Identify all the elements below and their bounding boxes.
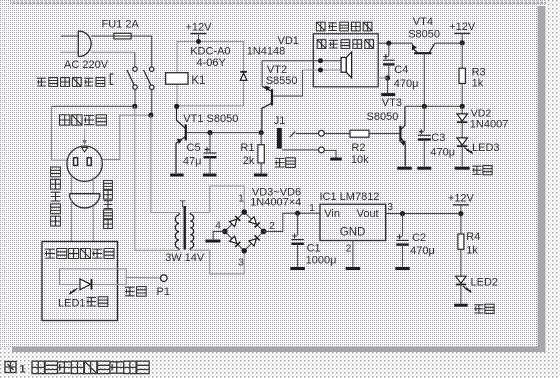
svg-text:1: 1 (20, 364, 26, 376)
label label 绿色 (472, 166, 492, 175)
svg-text:LED2: LED2 (471, 277, 499, 289)
ground VT1 emitter (170, 174, 184, 177)
svg-text:+12V: +12V (448, 192, 475, 204)
svg-text:K1: K1 (191, 75, 205, 87)
svg-text:C2: C2 (412, 232, 426, 244)
power +12V right (449, 21, 476, 43)
wire down to pole1 (134, 52, 136, 67)
svg-text:R2: R2 (351, 142, 365, 154)
wire C3 bottom stem (423, 140, 425, 167)
svg-text:S8050: S8050 (367, 111, 399, 123)
wire node to VD2 (461, 106, 463, 114)
ground J1 (330, 158, 342, 161)
ground LED2 (454, 304, 468, 307)
wire secondary bottom jog (190, 250, 244, 274)
wire bridge 4 to ground (213, 231, 225, 239)
wire C2 to ground (402, 245, 404, 267)
EV charger box (42, 242, 118, 321)
svg-text:C5: C5 (187, 142, 201, 154)
wire plug to charger left (70, 199, 72, 242)
diode VD4 (1-2) (249, 217, 260, 228)
label label 定时插座 (60, 115, 107, 125)
wire R1 top stem (260, 133, 262, 145)
AC plug symbol (78, 31, 91, 57)
svg-text:1k: 1k (466, 245, 478, 257)
wire VT3 collector to node (405, 105, 422, 107)
svg-text:R4: R4 (466, 231, 480, 243)
wire speaker to VT4 emitter (378, 42, 412, 44)
bridge node 3 (241, 248, 247, 254)
wire C3 top stem (423, 106, 425, 131)
svg-text:1N4007: 1N4007 (470, 119, 509, 131)
wire C4 to ground (387, 78, 389, 93)
svg-text:4-06Y: 4-06Y (197, 57, 227, 69)
timer socket symbol (67, 146, 102, 181)
svg-text:IC1 LM7812: IC1 LM7812 (320, 191, 380, 203)
wire secondary top jog (190, 186, 244, 213)
power +12V output (448, 192, 475, 211)
wire mains N down (150, 115, 152, 212)
svg-text:4: 4 (215, 220, 221, 231)
power +12V relay (186, 21, 213, 41)
switch pole1 bottom contact (133, 85, 137, 89)
push-button bracket (110, 74, 113, 84)
wire R2 to VT3 base (369, 133, 399, 135)
wire R4 to LED2 (460, 249, 462, 276)
svg-text:S8050: S8050 (408, 28, 440, 40)
label label 闹钟扬声器 (317, 40, 373, 49)
wire IC GND pin (352, 241, 354, 267)
svg-text:GND: GND (340, 227, 366, 239)
wire socket loop right jog (102, 115, 148, 160)
wire Vout to +12V (386, 213, 458, 215)
wire contact to R2 (324, 133, 350, 135)
node VT4 base / C3 (422, 104, 427, 109)
diode VD3 (4-1) (230, 216, 241, 227)
capacitor C1 (291, 234, 304, 244)
label label LED1 红色 (87, 297, 108, 307)
wire plug to charger right (92, 206, 94, 242)
node +12V VT4 (460, 40, 465, 45)
svg-text:3W 14V: 3W 14V (165, 252, 205, 264)
wire J1 bottom to contact (282, 149, 319, 151)
label label 插头 (125, 287, 146, 297)
svg-text:S8550: S8550 (266, 75, 298, 87)
wire C2 stem (402, 214, 404, 237)
svg-text:VT1 S8050: VT1 S8050 (183, 113, 238, 125)
switch pole1 blade (127, 70, 134, 85)
svg-text:2: 2 (346, 244, 352, 255)
speaker symbol (341, 52, 352, 78)
resistor R2 (350, 130, 369, 137)
wire socket loop top (52, 105, 133, 107)
wire C4 bottom stem (388, 65, 390, 78)
ground bridge (205, 240, 220, 243)
ground C1 (290, 267, 305, 270)
ground LED3 (455, 167, 470, 170)
wire socket loop left (52, 106, 68, 160)
LED LED2 (456, 276, 466, 284)
wire pole1 to node A (134, 89, 136, 104)
switch pole2 blade (144, 70, 151, 85)
wire C5 top stem (209, 133, 211, 153)
fuse FU1 (114, 33, 131, 39)
svg-text:AC 220V: AC 220V (64, 59, 109, 71)
svg-text:1000μ: 1000μ (306, 255, 337, 267)
label label 电动车充电器 (45, 249, 114, 259)
LED2 arrows (463, 286, 471, 292)
transformer T primary (175, 213, 179, 251)
charger internal loop (60, 269, 127, 285)
resistor R3 (459, 68, 465, 83)
svg-text:J1: J1 (274, 115, 286, 127)
capacitor C4 (383, 54, 395, 64)
transformer core (183, 206, 185, 250)
wire C5 bottom stem (209, 157, 211, 173)
svg-text:+12V: +12V (449, 21, 476, 33)
wire socket pin left (70, 176, 72, 194)
resistor R1 (258, 145, 264, 163)
svg-text:Vin: Vin (324, 208, 340, 220)
svg-text:LED1: LED1 (58, 297, 86, 309)
wire VT2 base to speaker (273, 70, 302, 96)
IC1 LM7812 box (320, 204, 386, 240)
wire mains L down (134, 106, 136, 250)
svg-text:C1: C1 (307, 242, 321, 254)
svg-text:3: 3 (387, 202, 393, 213)
wire C4 to speaker box (378, 77, 387, 79)
relay box wiring (177, 42, 244, 106)
svg-text:1k: 1k (472, 77, 484, 89)
node speaker bottom (318, 68, 323, 73)
wire LED2 to ground (460, 285, 462, 304)
wire +12V to R3 (461, 43, 463, 68)
label label 充电器插头 vertical (51, 167, 61, 226)
switch pole1 top contact (133, 67, 137, 71)
resistor R4 (458, 234, 464, 249)
svg-text:2k: 2k (243, 155, 255, 167)
svg-text:10k: 10k (351, 154, 369, 166)
ground VT3 emitter (397, 167, 412, 170)
LED LED3 (457, 138, 467, 146)
capacitor C3 (418, 129, 431, 139)
node C4 top (386, 41, 391, 46)
capacitor C2 (396, 234, 409, 244)
svg-text:1N4148: 1N4148 (247, 45, 286, 57)
svg-text:VT3: VT3 (382, 97, 402, 109)
svg-text:47μ: 47μ (183, 155, 202, 167)
J1 contact bottom (319, 147, 325, 153)
arrow to socket (83, 129, 87, 146)
svg-text:470μ: 470μ (430, 146, 455, 158)
top scan edge (10, 0, 546, 4)
transformer T secondary (190, 213, 193, 251)
wire VT1 base bus (187, 132, 259, 134)
wire VT4 collector to +12V (435, 42, 463, 44)
ground R1 (254, 174, 268, 177)
ground C2 (395, 267, 410, 270)
ground C4 (381, 93, 395, 96)
wire R3 to node (461, 83, 463, 104)
jack J1 (277, 128, 282, 149)
node C1 (295, 211, 300, 216)
diode VD5 (4-3) (230, 236, 241, 247)
svg-text:KDC-A0: KDC-A0 (190, 46, 230, 58)
svg-text:R1: R1 (240, 142, 254, 154)
wire to P1 (126, 276, 160, 279)
label label LED2 红色 (474, 304, 494, 313)
charger plug arc (69, 194, 100, 208)
svg-text:Vout: Vout (357, 208, 379, 220)
wire J1 to ground (324, 150, 336, 157)
ground C3 (417, 167, 431, 170)
node VT1 collector / relay (174, 104, 179, 109)
wire node bus (422, 105, 462, 107)
bridge node 1 (241, 209, 247, 215)
switch pole2 top contact (150, 67, 154, 71)
wire speaker top terminal (262, 60, 341, 62)
label label 插孔 (275, 158, 296, 168)
node C4 bottom (385, 75, 390, 80)
ground C5 (203, 174, 217, 177)
bridge node 4 (222, 229, 228, 235)
LED LED1 (80, 279, 92, 290)
svg-text:LED3: LED3 (472, 142, 500, 154)
wire fuse to switch pole2 (131, 36, 152, 67)
capacitor C5 (204, 147, 217, 157)
node B mains N (148, 113, 153, 118)
label label 电源开关按钮 (37, 78, 105, 87)
node +12V out (458, 211, 463, 216)
svg-text:470μ: 470μ (394, 78, 419, 90)
left scan line (4, 8, 6, 345)
bottom shadow (12, 347, 546, 353)
wire AC plug bottom stub (61, 51, 78, 53)
wire J1 tick to contact (296, 133, 319, 135)
wire socket pin right (92, 177, 94, 194)
wire C4 top stem (388, 43, 390, 56)
node C2 (400, 211, 405, 216)
wire VT2 emitter riser (261, 61, 263, 87)
bridge wiring diamond (225, 212, 264, 251)
figure caption 图1 智能定时插座电路图 (5, 362, 16, 373)
diode VD6 (3-2) (249, 235, 260, 246)
svg-text:FU1 2A: FU1 2A (102, 18, 140, 30)
diode VD1 (240, 72, 247, 81)
svg-text:1: 1 (309, 203, 315, 214)
wire C1 to ground (297, 244, 299, 267)
transistor VT4 (412, 44, 435, 54)
wire C1 stem (297, 213, 299, 235)
node R1 top / VT2 collector (259, 130, 264, 135)
svg-text:C3: C3 (431, 132, 445, 144)
svg-text:470μ: 470μ (410, 245, 435, 257)
wire bridge 2 to Vin (264, 213, 320, 231)
svg-text:P1: P1 (157, 286, 170, 298)
svg-text:1: 1 (238, 194, 244, 205)
relay coil K1 (166, 73, 188, 85)
svg-text:3: 3 (238, 258, 244, 269)
ground IC (346, 267, 361, 270)
alarm clock speaker box (313, 34, 378, 87)
wire to R4 (460, 214, 462, 234)
wire plug to fuse (91, 35, 114, 37)
node speaker top (318, 58, 323, 63)
wire VT4 base down (423, 53, 425, 104)
svg-text:+12V: +12V (186, 21, 213, 33)
wire plug bottom to switch pole1 (91, 51, 135, 53)
transistor VT2 (262, 86, 272, 131)
terminal P1 (161, 275, 168, 282)
node A mains L (132, 104, 137, 109)
wire speaker bottom terminal (303, 69, 342, 71)
svg-text:2: 2 (269, 221, 275, 232)
wire VD2 to LED3 (461, 122, 463, 138)
LED1 arrows (69, 288, 77, 294)
J1 contact top (319, 130, 325, 136)
svg-text:VT4: VT4 (413, 16, 433, 28)
wire to primary bottom (135, 249, 179, 251)
J1 normally-closed tick (290, 132, 296, 138)
wire pole2 to node B (151, 89, 153, 112)
transistor VT1 (176, 106, 186, 173)
diode VD2 (457, 114, 467, 122)
svg-text:C4: C4 (394, 64, 408, 76)
switch pole2 bottom contact (150, 85, 154, 89)
wire to primary top (151, 212, 179, 214)
transistor VT3 (400, 106, 406, 166)
node R3 / VD2 (460, 104, 465, 109)
node relay +12V (196, 39, 201, 44)
mechanical linkage dashed line (114, 78, 166, 80)
svg-text:1N4007×4: 1N4007×4 (250, 196, 301, 208)
right shadow (538, 6, 546, 352)
wire LED3 to ground (461, 146, 463, 166)
LED3 arrows (465, 148, 473, 154)
label label 石英小闹钟 (316, 22, 372, 31)
label label 到定时插座 vertical (104, 181, 113, 229)
node C5 top (207, 130, 212, 135)
bridge node 2 (261, 229, 267, 235)
wire R1 bottom stem (260, 163, 262, 173)
wire AC plug top stub (61, 35, 78, 37)
